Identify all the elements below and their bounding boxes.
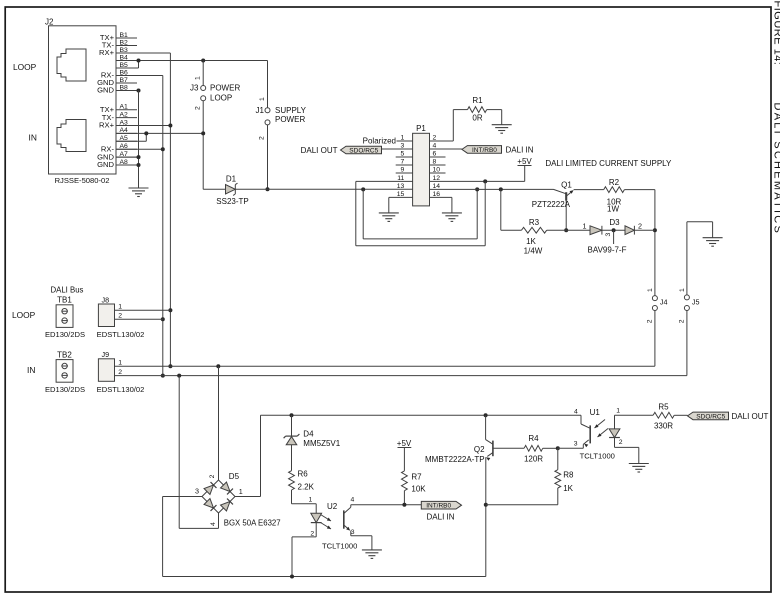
svg-text:J5: J5	[692, 298, 700, 307]
wire net POWER (B4/B5/A4/A5 to J3,J1)	[116, 59, 268, 190]
label LOOP	[13, 62, 37, 72]
ground P1.15	[379, 213, 399, 222]
wire P1.16	[430, 197, 452, 213]
svg-text:120R: 120R	[524, 454, 543, 463]
svg-text:RX+: RX+	[99, 121, 115, 130]
svg-text:POWER: POWER	[275, 115, 305, 124]
svg-text:TCLT1000: TCLT1000	[580, 451, 615, 460]
svg-text:EDSTL130/02: EDSTL130/02	[97, 385, 145, 394]
svg-text:J1: J1	[256, 106, 265, 115]
svg-text:3: 3	[574, 440, 578, 447]
wire net RX+ (B3/A3 to J8.1,J9.1)	[116, 53, 172, 368]
label IN (TB2)	[27, 365, 35, 375]
wire net RX- (B6/A6 to J8.2,J9.2)	[116, 76, 165, 378]
power +5V (top)	[517, 157, 532, 166]
svg-text:BGX 50A E6327: BGX 50A E6327	[224, 518, 281, 527]
terminal TB1 ED130/2DS	[45, 296, 85, 340]
svg-text:LOOP: LOOP	[13, 62, 37, 72]
wire P1.12 rail	[430, 166, 525, 184]
label DALI Bus	[51, 286, 84, 295]
svg-text:1/4W: 1/4W	[524, 246, 543, 255]
svg-text:TB2: TB2	[57, 350, 72, 359]
svg-text:1: 1	[647, 288, 654, 292]
svg-text:P1: P1	[416, 124, 426, 133]
svg-text:SDO/RC5: SDO/RC5	[696, 413, 725, 420]
svg-text:R5: R5	[658, 403, 669, 412]
svg-text:1: 1	[195, 76, 202, 80]
svg-text:MMBT2222A-TP: MMBT2222A-TP	[425, 455, 485, 464]
wire P1.14 rail	[430, 187, 554, 191]
resistor R4 120R	[524, 434, 560, 463]
svg-text:EDSTL130/02: EDSTL130/02	[97, 330, 145, 339]
ground J2	[129, 188, 149, 197]
svg-text:1: 1	[583, 222, 587, 231]
connector J2 (RJSSE-5080-02)	[45, 18, 116, 185]
svg-text:D1: D1	[226, 175, 237, 184]
svg-text:PZT2222A: PZT2222A	[532, 200, 571, 209]
wire D5.3 to bottom rail	[163, 497, 202, 577]
J2 pins B1-B8	[97, 32, 137, 95]
svg-text:BAV99-7-F: BAV99-7-F	[588, 245, 627, 254]
ground U1	[629, 464, 649, 473]
svg-text:INT/RB0: INT/RB0	[472, 147, 497, 154]
wire net GND (B8/A7/A8)	[116, 89, 141, 189]
svg-text:J4: J4	[660, 298, 668, 307]
svg-text:J8: J8	[102, 295, 110, 304]
svg-text:1W: 1W	[607, 204, 619, 213]
svg-text:J3: J3	[190, 84, 199, 93]
svg-text:R4: R4	[528, 434, 539, 443]
svg-text:A2: A2	[120, 111, 129, 118]
svg-text:U2: U2	[327, 502, 338, 511]
svg-text:2: 2	[118, 313, 122, 320]
svg-text:R2: R2	[609, 178, 620, 187]
title FIGURE 14: DALI SCHEMATICS	[772, 1, 780, 236]
svg-text:1: 1	[259, 97, 266, 101]
svg-text:TB1: TB1	[57, 296, 72, 305]
resistor R1 0R	[430, 96, 502, 141]
connector P1	[382, 124, 462, 206]
svg-text:DALI OUT: DALI OUT	[301, 146, 338, 155]
svg-text:GND: GND	[97, 86, 114, 95]
wire P1.11 loop	[356, 181, 485, 245]
wire bottom rail	[163, 575, 486, 579]
jumper J5	[678, 222, 712, 376]
svg-text:1K: 1K	[563, 484, 573, 493]
svg-text:330R: 330R	[654, 422, 673, 431]
svg-text:B7: B7	[120, 77, 129, 84]
transistor Q1 PZT2222A	[532, 180, 574, 232]
wire D5.2 to J9.1 rail	[218, 366, 220, 480]
svg-text:2: 2	[259, 136, 266, 140]
svg-text:R6: R6	[298, 470, 309, 479]
svg-text:10K: 10K	[411, 485, 426, 494]
dual diode D3 BAV99-7-F	[583, 218, 655, 254]
svg-text:R7: R7	[411, 472, 422, 481]
svg-text:SDO/RC5: SDO/RC5	[349, 147, 378, 154]
jumper J4	[646, 288, 667, 366]
svg-text:13: 13	[397, 183, 405, 190]
svg-text:2: 2	[310, 530, 314, 537]
svg-text:SUPPLY: SUPPLY	[275, 106, 307, 115]
svg-text:+5V: +5V	[397, 439, 412, 448]
svg-text:4: 4	[210, 522, 217, 526]
J2 pins A1-A8	[97, 104, 137, 170]
net flag INT/RB0 DALI IN (bottom)	[421, 501, 461, 521]
wire P1.13 loop	[361, 187, 479, 239]
wire J9.2 rail to J5.2	[115, 374, 687, 378]
svg-text:TCLT1000: TCLT1000	[322, 541, 357, 550]
svg-text:DALI IN: DALI IN	[506, 145, 534, 154]
svg-text:DALI LIMITED CURRENT SUPPLY: DALI LIMITED CURRENT SUPPLY	[545, 159, 672, 168]
svg-text:MM5Z5V1: MM5Z5V1	[303, 439, 340, 448]
net flag SDO/RC5 DALI OUT (P1.3)	[301, 146, 382, 155]
svg-text:RJSSE-5080-02: RJSSE-5080-02	[55, 176, 110, 185]
svg-text:2: 2	[646, 319, 653, 323]
svg-text:SS23-TP: SS23-TP	[216, 197, 248, 206]
svg-text:LOOP: LOOP	[12, 310, 36, 320]
wire J9.1 rail to J4.2	[115, 364, 655, 368]
svg-text:A1: A1	[120, 104, 129, 111]
label LOOP (TB1)	[12, 310, 36, 320]
svg-text:0R: 0R	[472, 114, 482, 123]
svg-text:3: 3	[351, 529, 355, 536]
svg-text:R3: R3	[529, 218, 540, 227]
terminal TB2 ED130/2DS	[45, 350, 85, 394]
label DALI LIMITED CURRENT SUPPLY	[545, 159, 672, 168]
svg-text:2: 2	[619, 439, 623, 446]
svg-text:INT/RB0: INT/RB0	[426, 503, 451, 510]
svg-text:DALI Bus: DALI Bus	[51, 286, 84, 295]
optocoupler U2 TCLT1000	[292, 496, 421, 576]
resistor R2 10R 1W	[574, 178, 657, 295]
svg-text:3: 3	[195, 486, 199, 495]
svg-text:1: 1	[679, 288, 686, 292]
ground R1	[492, 125, 512, 134]
label Polarized	[363, 136, 396, 145]
svg-text:ED130/2DS: ED130/2DS	[45, 330, 85, 339]
svg-text:D3: D3	[609, 218, 620, 227]
svg-text:Polarized: Polarized	[363, 136, 396, 145]
svg-text:DALI OUT: DALI OUT	[732, 412, 769, 421]
svg-text:IN: IN	[27, 365, 35, 375]
svg-text:2: 2	[118, 369, 122, 376]
svg-text:2: 2	[678, 319, 685, 323]
connector J8 EDSTL130/02	[97, 295, 171, 339]
svg-text:4: 4	[351, 496, 355, 503]
net flag SDO/RC5 DALI OUT (bottom)	[688, 412, 769, 421]
svg-text:ED130/2DS: ED130/2DS	[45, 385, 85, 394]
label IN	[29, 133, 37, 143]
svg-text:2: 2	[638, 221, 642, 230]
svg-text:B1: B1	[120, 32, 129, 39]
svg-text:B2: B2	[120, 39, 129, 46]
svg-text:FIGURE 14:: FIGURE 14:	[772, 1, 780, 66]
svg-text:R1: R1	[472, 96, 483, 105]
svg-text:POWER: POWER	[210, 83, 240, 92]
resistor R5 330R	[615, 403, 688, 431]
svg-text:4: 4	[574, 408, 578, 415]
svg-text:J9: J9	[102, 350, 110, 359]
zener diode D4 MM5Z5V1	[284, 415, 341, 470]
svg-text:1: 1	[118, 360, 122, 367]
wire P1.15	[389, 197, 413, 213]
svg-text:Q2: Q2	[474, 445, 485, 454]
resistor R3 1K 1/4W	[501, 189, 590, 255]
svg-text:1: 1	[118, 304, 122, 311]
resistor R7 10K	[402, 448, 427, 507]
power +5V (R7)	[397, 439, 412, 448]
svg-text:2.2K: 2.2K	[298, 482, 315, 491]
svg-text:DALI IN: DALI IN	[427, 512, 455, 521]
svg-text:R8: R8	[563, 470, 574, 479]
transistor Q2 MMBT2222A-TP	[425, 415, 524, 576]
wire D5.1 to top rail	[235, 415, 261, 496]
svg-text:1: 1	[616, 408, 620, 415]
svg-text:1K: 1K	[526, 237, 536, 246]
wire D5.4 to J9.2 rail	[179, 376, 218, 529]
svg-text:D4: D4	[303, 430, 314, 439]
svg-text:GND: GND	[97, 160, 114, 169]
diode D1 SS23-TP	[203, 175, 412, 207]
wire Q2.e to R8	[486, 504, 558, 506]
resistor R8 1K	[555, 448, 574, 504]
svg-text:+5V: +5V	[517, 157, 532, 166]
svg-text:DALI SCHEMATICS: DALI SCHEMATICS	[772, 103, 780, 236]
svg-text:U1: U1	[590, 408, 601, 417]
ground U2	[362, 550, 382, 559]
ground J5	[703, 238, 723, 247]
svg-text:2: 2	[209, 474, 216, 478]
svg-text:2: 2	[195, 106, 202, 110]
svg-text:IN: IN	[29, 133, 37, 143]
bridge rectifier D5 BGX 50A E6327	[195, 472, 281, 528]
jumper J3 POWER LOOP	[190, 76, 240, 110]
optocoupler U1 TCLT1000	[558, 408, 639, 464]
resistor R6 2.2K	[289, 470, 317, 514]
svg-text:RX+: RX+	[99, 48, 115, 57]
wire top rail (D5.1/D4/Q2/U1.4)	[261, 413, 582, 417]
svg-text:D5: D5	[229, 472, 240, 481]
connector J9 EDSTL130/02	[97, 350, 145, 394]
svg-text:J2: J2	[45, 18, 54, 27]
jumper J1 SUPPLY POWER	[256, 97, 307, 191]
net flag INT/RB0 DALI IN (P1.4)	[462, 145, 534, 154]
svg-text:3: 3	[605, 233, 612, 237]
svg-text:1: 1	[239, 487, 243, 496]
svg-text:1: 1	[309, 497, 313, 504]
ground P1.16	[442, 213, 462, 222]
svg-text:Q1: Q1	[561, 180, 572, 189]
svg-text:LOOP: LOOP	[210, 94, 232, 103]
